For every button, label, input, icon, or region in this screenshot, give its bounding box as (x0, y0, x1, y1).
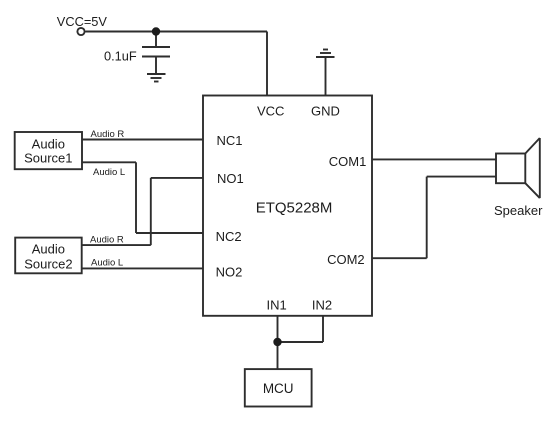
svg-text:Speaker: Speaker (494, 203, 543, 218)
svg-text:Audio L: Audio L (91, 257, 123, 268)
svg-text:COM2: COM2 (327, 252, 365, 267)
svg-text:NO2: NO2 (216, 265, 243, 280)
svg-text:Source2: Source2 (24, 257, 72, 272)
svg-text:ETQ5228M: ETQ5228M (256, 200, 333, 217)
svg-text:IN2: IN2 (312, 298, 332, 313)
svg-text:NC1: NC1 (217, 133, 243, 148)
svg-text:0.1uF: 0.1uF (104, 49, 137, 64)
svg-text:IN1: IN1 (267, 298, 287, 313)
svg-text:NO1: NO1 (217, 171, 244, 186)
svg-text:Audio R: Audio R (91, 129, 125, 140)
svg-text:Audio: Audio (32, 242, 65, 257)
svg-text:VCC=5V: VCC=5V (57, 14, 108, 29)
svg-text:GND: GND (311, 104, 340, 119)
svg-text:Source1: Source1 (24, 151, 72, 166)
svg-text:MCU: MCU (263, 381, 294, 396)
svg-text:Audio: Audio (32, 136, 65, 151)
svg-text:Audio L: Audio L (93, 167, 125, 178)
svg-text:VCC: VCC (257, 104, 284, 119)
svg-text:NC2: NC2 (216, 229, 242, 244)
svg-text:Audio R: Audio R (90, 234, 124, 245)
svg-text:COM1: COM1 (329, 154, 367, 169)
